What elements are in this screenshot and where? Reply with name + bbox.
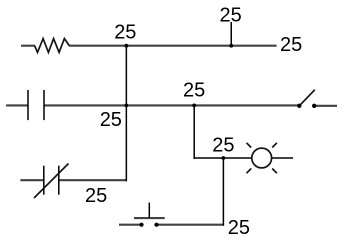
svg-text:25: 25 xyxy=(280,34,302,56)
svg-text:25: 25 xyxy=(85,185,107,207)
svg-text:25: 25 xyxy=(114,21,136,43)
svg-text:25: 25 xyxy=(228,217,250,239)
svg-text:25: 25 xyxy=(183,79,205,101)
svg-text:25: 25 xyxy=(212,134,234,156)
svg-text:25: 25 xyxy=(220,4,242,26)
svg-text:25: 25 xyxy=(100,109,122,131)
